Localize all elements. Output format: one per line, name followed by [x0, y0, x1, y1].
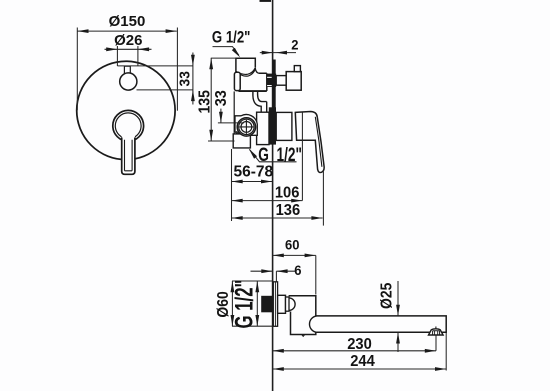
- leader arrow at top edge: [260, 0, 272, 2]
- down pipe with elbow: [253, 91, 267, 112]
- ball joint arc: [289, 298, 295, 311]
- arrow 106 left: [232, 199, 243, 203]
- svg-text:60: 60: [285, 237, 299, 253]
- top inlet corner curves to body: [255, 68, 259, 74]
- band slits: [267, 77, 272, 78]
- lever pivot outer circle: [113, 110, 144, 141]
- dim Ø150 line: [77, 30, 177, 32]
- svg-text:56-78: 56-78: [233, 164, 273, 181]
- leader G 1/2 bottom-left: [250, 150, 297, 162]
- arrow Ø60 inner bottom: [231, 315, 235, 326]
- dim Ø60 line: [256, 281, 258, 326]
- leader G 1/2 top: [213, 47, 239, 56]
- arrow 230 right: [425, 349, 436, 353]
- label 33 side (rotated): [212, 90, 230, 106]
- svg-text:33: 33: [212, 90, 230, 106]
- arrow 60 right: [305, 254, 316, 258]
- wall line full height: [272, 0, 274, 391]
- cartridge sleeve at wall: [276, 112, 292, 140]
- arrow Ø150 right: [166, 29, 177, 33]
- dim 33 bottom extension line: [137, 89, 193, 91]
- svg-text:Ø25: Ø25: [379, 283, 396, 309]
- elbow block outline: [289, 296, 316, 335]
- svg-text:Ø150: Ø150: [109, 13, 146, 30]
- elbow block fill: [289, 296, 316, 335]
- dim 6 right extension: [275, 271, 277, 282]
- lever stem white mask: [122, 136, 135, 174]
- arrow 135 top: [209, 58, 213, 69]
- diverter knob circle Ø26: [120, 73, 137, 90]
- black through-wall band (diverter): [267, 74, 276, 87]
- arrow 33 bottom (up): [191, 90, 195, 101]
- dim 136 line: [232, 217, 323, 219]
- arrow 60 left: [273, 254, 284, 258]
- label G 1/2 top: [212, 28, 251, 47]
- label 106: [275, 184, 300, 202]
- label 6: [294, 263, 302, 279]
- arrow 33 side bottom: [219, 112, 223, 123]
- svg-text:6: 6: [294, 263, 302, 279]
- arrow 136 left: [232, 216, 243, 220]
- dim 2 line: [260, 52, 296, 54]
- dim 33 side bottom extension: [218, 122, 244, 124]
- dim 244 line: [273, 368, 447, 370]
- dim Ø150 left extension: [76, 28, 78, 111]
- arrow 244 right: [435, 367, 446, 371]
- arrow Ø25 bottom (up): [396, 332, 400, 343]
- dim 135 line: [210, 58, 212, 141]
- svg-text:Ø26: Ø26: [114, 32, 142, 49]
- diverter body left flange: [234, 72, 240, 90]
- dim 56-78 left extension: [231, 149, 233, 221]
- lever pivot inner circle: [115, 113, 141, 139]
- dim 135 bottom extension: [208, 140, 235, 142]
- arrow leader G12 bottom: [249, 149, 257, 159]
- arrow leader G12 top: [232, 48, 240, 58]
- spout hub: [278, 295, 286, 313]
- arrow 56-78 left: [232, 180, 243, 184]
- lever stem inner contour: [125, 140, 133, 171]
- arrow Ø26 left (outside): [106, 47, 117, 51]
- dim 106 right extension: [301, 112, 303, 200]
- svg-text:230: 230: [347, 335, 372, 353]
- handle hub bottom edge: [297, 139, 316, 141]
- dim 33 top extension line: [117, 65, 192, 67]
- arrow Ø60 inner top: [231, 281, 235, 292]
- dim Ø26 right extension: [137, 46, 139, 66]
- svg-text:106: 106: [275, 184, 300, 202]
- cartridge housing (in wall): [257, 112, 269, 144]
- arrow dim2 left (outside): [262, 51, 273, 55]
- spout collar: [286, 297, 290, 311]
- dim Ø150 right extension: [176, 28, 178, 111]
- aerator: [429, 329, 444, 335]
- arrow 106 right: [291, 199, 302, 203]
- arrow Ø26 right (outside): [138, 47, 149, 51]
- dim 6 right tail: [276, 270, 296, 272]
- aerator top tick: [435, 327, 437, 329]
- inlet port cross: [239, 120, 253, 134]
- diverter knob body: [286, 72, 301, 91]
- lower housing box: [233, 134, 250, 148]
- arrow dim2 right (outside): [276, 51, 287, 55]
- label 33 (front, rotated): [177, 71, 194, 86]
- arrow 244 left: [273, 367, 284, 371]
- spout tube fill: [311, 317, 446, 332]
- handle inner contour lines: [315, 117, 322, 167]
- lever stem outline: [122, 138, 135, 175]
- arrow Ø150 left: [77, 29, 88, 33]
- dim Ø60 bottom extension: [232, 325, 273, 327]
- arrow Ø25 top (down): [396, 305, 400, 316]
- inlet port plate: [235, 115, 257, 136]
- arrow 135 bottom: [209, 130, 213, 141]
- spout tube outline: [316, 316, 446, 332]
- dim Ø25 lower line: [397, 332, 399, 352]
- diverter body bottom edge: [239, 90, 267, 92]
- dim 33 vertical line: [192, 53, 194, 105]
- dim 56-78 line: [232, 181, 273, 183]
- label 136: [276, 201, 301, 219]
- dim 33 side line: [220, 109, 222, 123]
- flange inner line: [274, 282, 276, 327]
- svg-text:G 1/2": G 1/2": [258, 144, 302, 166]
- diverter body top-right edge: [259, 73, 267, 91]
- arrow 136 right: [311, 216, 322, 220]
- svg-text:33: 33: [177, 71, 194, 86]
- arrow 6 right (outside): [276, 269, 287, 273]
- svg-text:G 1/2": G 1/2": [230, 280, 258, 329]
- dim 136 right extension: [322, 172, 324, 226]
- top inlet rect: [236, 58, 255, 72]
- label 230: [347, 335, 372, 353]
- diverter stub rect above small knob: [124, 66, 130, 74]
- arrow Ø60 bottom: [255, 315, 259, 326]
- dim 60 line: [273, 254, 316, 256]
- rosette outer circle Ø150: [77, 61, 175, 159]
- housing left edge line: [233, 91, 235, 133]
- wall plate thickening: [273, 60, 276, 145]
- svg-text:135: 135: [196, 90, 214, 113]
- handle lever: [295, 112, 324, 173]
- spout tube joint arc: [309, 316, 316, 332]
- aerator inner box: [433, 331, 440, 335]
- arrow 56-78 right: [261, 180, 272, 184]
- dim 244 right extension: [445, 332, 447, 370]
- dim 230 right extension: [435, 335, 437, 351]
- dim 60 right extension: [315, 255, 317, 294]
- arrow 6 left (outside): [261, 269, 272, 273]
- svg-text:244: 244: [350, 353, 375, 371]
- arrow Ø60 top: [255, 281, 259, 292]
- label 2: [291, 37, 298, 53]
- label 244: [350, 353, 375, 371]
- top inlet neck hammock curves: [236, 68, 255, 76]
- inlet port plate chamfer inner line: [236, 131, 239, 134]
- diverter knob stub: [276, 76, 286, 86]
- dim Ø60 top extension: [232, 280, 273, 282]
- dim 6 left tail: [251, 270, 273, 272]
- svg-text:2: 2: [291, 37, 298, 53]
- black G1/2 nipple in wall: [261, 296, 272, 313]
- label 135 (rotated): [196, 90, 214, 113]
- flange on wall: [273, 282, 277, 327]
- dim 135 top extension: [211, 57, 236, 59]
- label 56-78: [233, 164, 273, 181]
- dim 230 line: [273, 350, 436, 352]
- dim 106 line: [232, 200, 303, 202]
- label Ø60 (rotated): [216, 291, 233, 317]
- label G 1/2 side: [258, 144, 302, 166]
- svg-text:G 1/2": G 1/2": [212, 28, 251, 47]
- label G 1/2 bottom (rotated): [230, 280, 258, 329]
- arrow 230 left: [273, 349, 284, 353]
- dim Ø26 line: [105, 48, 152, 50]
- aerator inner ticks: [435, 331, 438, 335]
- inlet port circle rings: [237, 118, 255, 136]
- black through-wall band (cartridge): [269, 107, 276, 144]
- svg-text:136: 136: [276, 201, 301, 219]
- diverter body fill: [238, 69, 267, 92]
- diverter knob top button: [294, 66, 300, 72]
- elbow bottom notch: [302, 335, 305, 337]
- dim Ø26 left extension: [116, 46, 118, 66]
- arrow 33 top (down): [191, 55, 195, 66]
- dim Ø60 inner line: [231, 281, 233, 326]
- label 60: [285, 237, 299, 253]
- label Ø25 (rotated): [379, 283, 396, 309]
- dim Ø25 upper line: [397, 281, 399, 316]
